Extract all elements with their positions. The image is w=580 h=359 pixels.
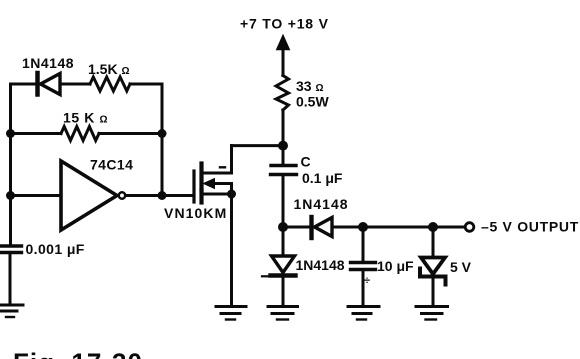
svg-text:33 Ω: 33 Ω <box>296 78 324 94</box>
diode D2 1N4148 cathode bar <box>309 217 313 238</box>
node A junction dot left bus 15K <box>6 129 15 138</box>
diode D3 cathode bar <box>271 273 296 277</box>
transistor Q1 body arrowhead <box>204 179 215 189</box>
svg-text:1N4148: 1N4148 <box>294 196 349 212</box>
transistor Q1 drain lead <box>203 146 232 173</box>
svg-text:1N4148: 1N4148 <box>296 257 345 273</box>
supply arrow head <box>277 36 289 50</box>
node junction dot supply rail <box>278 141 288 151</box>
capacitor C bottom plate <box>271 173 297 176</box>
node C junction dot <box>358 222 368 232</box>
wire 1.5K to right corner <box>130 83 162 86</box>
capacitor C2 10uF top plate <box>351 261 376 264</box>
wire 15K right segment <box>99 132 162 135</box>
transistor Q1 drain stub <box>199 164 203 176</box>
svg-text:15 K Ω: 15 K Ω <box>63 110 108 126</box>
diode D3 1N4148 triangle <box>272 256 295 273</box>
op-amp U1 output bubble <box>119 192 125 198</box>
node B junction dot <box>278 222 288 232</box>
node junction dot inverter output <box>158 191 167 200</box>
wire feedback right vertical <box>161 84 164 196</box>
ground zener <box>416 307 448 320</box>
ground mosfet source <box>216 307 246 320</box>
svg-text:10 μF: 10 μF <box>377 258 414 274</box>
wire output rail <box>283 226 465 229</box>
diode D1 1N4148 triangle <box>41 74 61 95</box>
wire diode to 1.5K resistor <box>60 83 90 86</box>
wire zener to ground <box>432 279 435 305</box>
svg-text:+7 TO +18 V: +7 TO +18 V <box>240 16 329 32</box>
zener D4 bar with wings <box>420 269 446 285</box>
wire feedback top left segment <box>11 83 36 86</box>
wire inverter output <box>126 194 193 197</box>
wire cap C to node B <box>282 177 285 228</box>
svg-text:÷: ÷ <box>364 275 370 287</box>
wire left vertical bus <box>9 84 12 244</box>
op-amp U1 74C14 inverter triangle <box>61 161 117 230</box>
svg-text:1N4148: 1N4148 <box>22 55 74 71</box>
wire drain top horizontal <box>232 144 284 147</box>
wire 15K left segment <box>11 132 62 135</box>
wire 10uF to ground <box>362 271 365 305</box>
svg-text:5 V: 5 V <box>450 259 472 275</box>
transistor Q1 VN10KM gate bar <box>192 171 195 202</box>
resistor R2 15K zigzag <box>61 127 99 141</box>
wire node to cap C <box>282 146 285 163</box>
node junction dot right feedback 15K <box>158 129 167 138</box>
node D junction dot <box>428 222 438 232</box>
svg-text:0.001 μF: 0.001 μF <box>26 241 85 257</box>
node junction dot left bus input <box>6 191 15 200</box>
wire scan tick near drain bend <box>220 166 225 168</box>
transistor Q1 source lead <box>203 193 232 196</box>
zener D4 5V triangle <box>421 258 445 275</box>
svg-text:–5 V OUTPUT: –5 V OUTPUT <box>481 219 579 235</box>
wire node B down to D3 <box>282 227 285 255</box>
svg-text:C: C <box>301 154 311 170</box>
wire node C down to 10uF <box>362 227 365 261</box>
resistor R3 33ohm zigzag <box>276 76 289 111</box>
wire D3 to ground <box>282 278 285 305</box>
capacitor C3 0.001uF bottom plate <box>1 251 22 254</box>
transistor Q1 source stub <box>199 191 203 203</box>
svg-text:VN10KM: VN10KM <box>164 205 227 221</box>
svg-text:74C14: 74C14 <box>90 157 133 173</box>
transistor Q1 body arrow lead <box>212 184 232 195</box>
capacitor C top plate <box>271 164 296 167</box>
resistor R1 1.5K zigzag <box>90 77 130 91</box>
wire source to ground <box>230 194 233 306</box>
svg-text:Fig. 17-30: Fig. 17-30 <box>13 348 143 359</box>
capacitor C2 10uF bottom plate <box>351 268 376 271</box>
wire inverter input <box>11 194 62 197</box>
wire scan tick left of D3 bar <box>262 275 268 277</box>
transistor Q1 body stub <box>199 179 203 189</box>
output terminal circle <box>465 223 474 232</box>
ground 10uF <box>348 307 379 320</box>
wire 33ohm to node <box>282 110 285 146</box>
diode D2 1N4148 triangle <box>315 218 333 237</box>
svg-text:0.5W: 0.5W <box>296 94 329 110</box>
svg-text:0.1 μF: 0.1 μF <box>302 170 343 186</box>
wire node D down to zener <box>432 227 435 256</box>
wire supply vertical <box>282 45 285 76</box>
ground D3 <box>268 307 298 320</box>
capacitor C3 0.001uF top plate <box>1 244 22 247</box>
wire left bus below cap <box>9 253 12 305</box>
node junction dot mosfet source <box>227 190 236 199</box>
ground left cap <box>0 305 23 317</box>
diode D1 1N4148 cathode bar <box>35 73 40 95</box>
svg-text:1.5K Ω: 1.5K Ω <box>88 61 130 77</box>
